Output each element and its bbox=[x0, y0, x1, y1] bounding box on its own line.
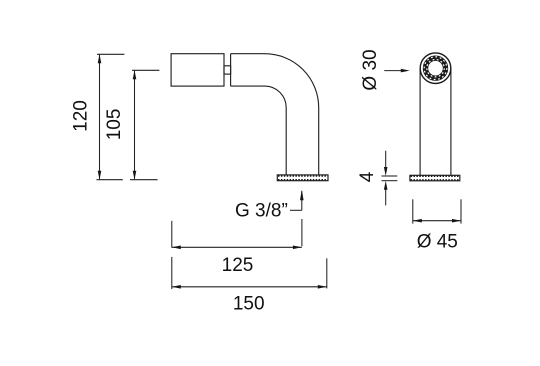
svg-text:120: 120 bbox=[71, 100, 92, 132]
svg-text:125: 125 bbox=[222, 255, 254, 276]
svg-text:G 3/8”: G 3/8” bbox=[235, 200, 288, 221]
svg-text:Ø 30: Ø 30 bbox=[360, 49, 381, 90]
svg-text:150: 150 bbox=[233, 294, 265, 315]
svg-text:105: 105 bbox=[104, 109, 125, 141]
svg-text:4: 4 bbox=[357, 171, 378, 182]
svg-text:Ø 45: Ø 45 bbox=[417, 232, 458, 253]
